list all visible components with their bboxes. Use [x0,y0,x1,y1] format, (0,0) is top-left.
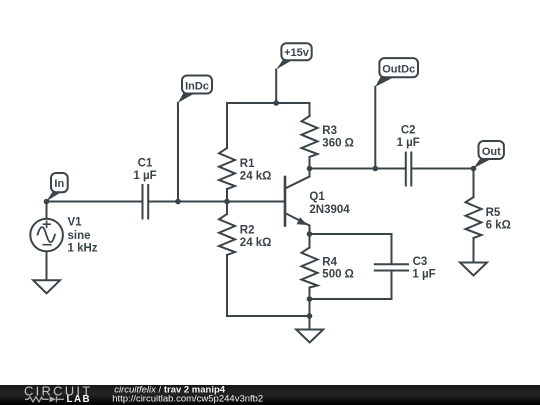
svg-text:24 kΩ: 24 kΩ [240,237,272,249]
capacitor C1 [143,185,149,219]
svg-text:6 kΩ: 6 kΩ [486,220,511,232]
node dot: emitter [307,231,313,237]
wire V1 top lead [46,202,48,219]
svg-text:360 Ω: 360 Ω [322,138,354,150]
resistor R4 [302,234,318,288]
node dot: R4/C3 bottom [307,296,313,302]
capacitor C3 [375,264,408,270]
resistor R3 [302,103,318,169]
svg-text:R4: R4 [322,256,337,268]
resistor R5 [466,169,482,263]
voltage source V1 [30,219,63,252]
svg-text:C2: C2 [401,124,416,136]
wire C3 bottom stem [391,272,393,300]
svg-text:OutDc: OutDc [382,64,415,76]
svg-text:sine: sine [68,230,91,242]
wire OutDc drop [374,87,376,169]
wire emitter rail to C3 [310,233,392,235]
svg-text:2N3904: 2N3904 [309,204,350,216]
node dot: Out [471,166,477,172]
CircuitLab logo wordmark [24,384,92,405]
node dot: +15v rail [273,100,279,106]
node dot: InDc tap [175,199,181,205]
svg-text:1 µF: 1 µF [412,268,435,280]
flag label InDc [178,76,212,103]
wire C2 right plate to Out node [412,168,473,170]
ground (R5) [460,263,487,276]
svg-text:V1: V1 [68,217,83,229]
flag label OutDc [375,58,418,87]
svg-text:Out: Out [482,146,501,158]
wire C1 right plate to InDc tap [149,201,178,203]
wire R1/R2 node to Q1 base [227,201,285,203]
wire C3 top stem [391,234,393,263]
svg-text:Q1: Q1 [309,191,325,203]
wire V1 bottom lead [46,252,48,281]
svg-text:R1: R1 [240,158,255,170]
flag label Out [474,141,504,168]
wire collector rail to C2 left plate [310,168,405,170]
svg-text:C3: C3 [413,256,428,268]
wire +15v drop [275,70,277,104]
node dot: OutDc tap [373,166,379,172]
resistor R2 [219,202,235,317]
node dot: ground junction [307,313,313,319]
svg-text:InDc: InDc [185,80,209,92]
wire InDc tap to R1/R2 node [178,201,227,203]
svg-text:R3: R3 [322,125,337,137]
svg-text:http://circuitlab.com/cw5p244v: http://circuitlab.com/cw5p244v3nfb2 [112,394,263,405]
wire R2 bottom rail [227,315,310,317]
wire R4 bottom to ground stem [309,288,311,330]
flag label +15v [276,43,311,69]
svg-text:R5: R5 [486,207,501,219]
svg-text:24 kΩ: 24 kΩ [240,170,272,182]
transistor Q1 [285,169,310,235]
svg-text:1 kHz: 1 kHz [68,243,98,255]
wire InDc vertical drop [177,103,179,202]
svg-text:1 µF: 1 µF [397,137,420,149]
svg-text:In: In [54,178,64,190]
node dot: R1/R2 divider [224,199,230,205]
flag label In [47,173,68,201]
svg-text:1 µF: 1 µF [133,170,156,182]
svg-text:C1: C1 [138,157,153,169]
resistor R1 [219,103,235,202]
svg-text:+15v: +15v [284,47,310,59]
ground (V1) [33,280,60,293]
wire top rail [227,102,310,104]
wire main input rail from V1 node to C1 left plate [47,201,142,203]
footer bar [0,385,540,405]
svg-text:500 Ω: 500 Ω [322,269,354,281]
svg-text:LAB: LAB [67,394,92,405]
wire C3 bottom rail [310,298,392,300]
node dot: collector [307,166,313,172]
svg-text:R2: R2 [240,224,255,236]
ground (emitter network) [296,330,323,343]
node dot: In [44,199,50,205]
capacitor C2 [406,153,412,186]
